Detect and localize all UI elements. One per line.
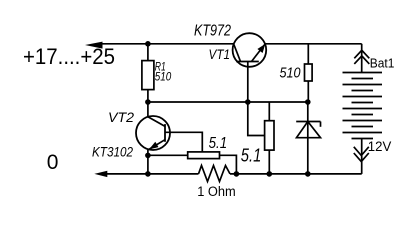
wire middle rail node B to node D — [148, 101, 308, 103]
wire bottom rail right — [230, 173, 362, 175]
arrow input + terminal — [85, 42, 103, 49]
wire top rail VT1 emitter to battery — [265, 43, 362, 45]
zener diode — [296, 102, 320, 174]
wire bottom rail left — [105, 173, 199, 175]
svg-text:VT2: VT2 — [108, 109, 134, 125]
svg-text:Bat1: Bat1 — [370, 56, 395, 71]
transistor VT1 (KT972 NPN) — [233, 33, 267, 102]
wire top-left supply to node A — [99, 43, 234, 45]
svg-text:510: 510 — [280, 66, 301, 82]
battery Bat1 negative lead with current arrows — [354, 139, 369, 174]
svg-text:VT1: VT1 — [209, 46, 231, 62]
svg-text:KT3102: KT3102 — [92, 145, 133, 160]
svg-text:KT972: KT972 — [194, 23, 231, 40]
node D (zener / 510 junction) — [305, 99, 311, 105]
node H (trimmer bottom) — [267, 171, 273, 177]
node G (5.1 resistor return) — [234, 171, 240, 177]
svg-text:1 Ohm: 1 Ohm — [197, 184, 236, 199]
node I (zener anode) — [305, 171, 311, 177]
wire VT2 base to 5.1 resistor tap — [165, 132, 202, 152]
resistor 5.1 (horizontal, emitter) — [148, 152, 237, 174]
arrow ground terminal — [94, 171, 107, 177]
battery Bat1 positive lead with current arrows — [354, 44, 369, 73]
svg-text:5.1: 5.1 — [241, 145, 261, 165]
battery Bat1 cell plates — [343, 73, 383, 139]
svg-text:0: 0 — [47, 151, 59, 174]
node A (supply / R1 top) — [145, 41, 151, 47]
resistor R1 — [142, 44, 154, 102]
resistor 1 Ohm (zigzag) — [199, 166, 231, 182]
node B (R1 bottom / VT2 collector) — [145, 99, 151, 105]
svg-text:12V: 12V — [368, 138, 392, 154]
svg-text:5.1: 5.1 — [209, 135, 228, 152]
transistor VT2 (KT3102 NPN) — [136, 102, 170, 174]
trimmer resistor 5.1 (vertical with tap) — [248, 102, 274, 174]
resistor 510 (right) — [305, 44, 313, 102]
node E (VT2 emitter junction) — [145, 153, 151, 159]
svg-text:510: 510 — [155, 72, 172, 84]
node F (ground rail / VT2 emitter) — [145, 171, 151, 177]
node C (VT1 base junction) — [245, 99, 251, 105]
